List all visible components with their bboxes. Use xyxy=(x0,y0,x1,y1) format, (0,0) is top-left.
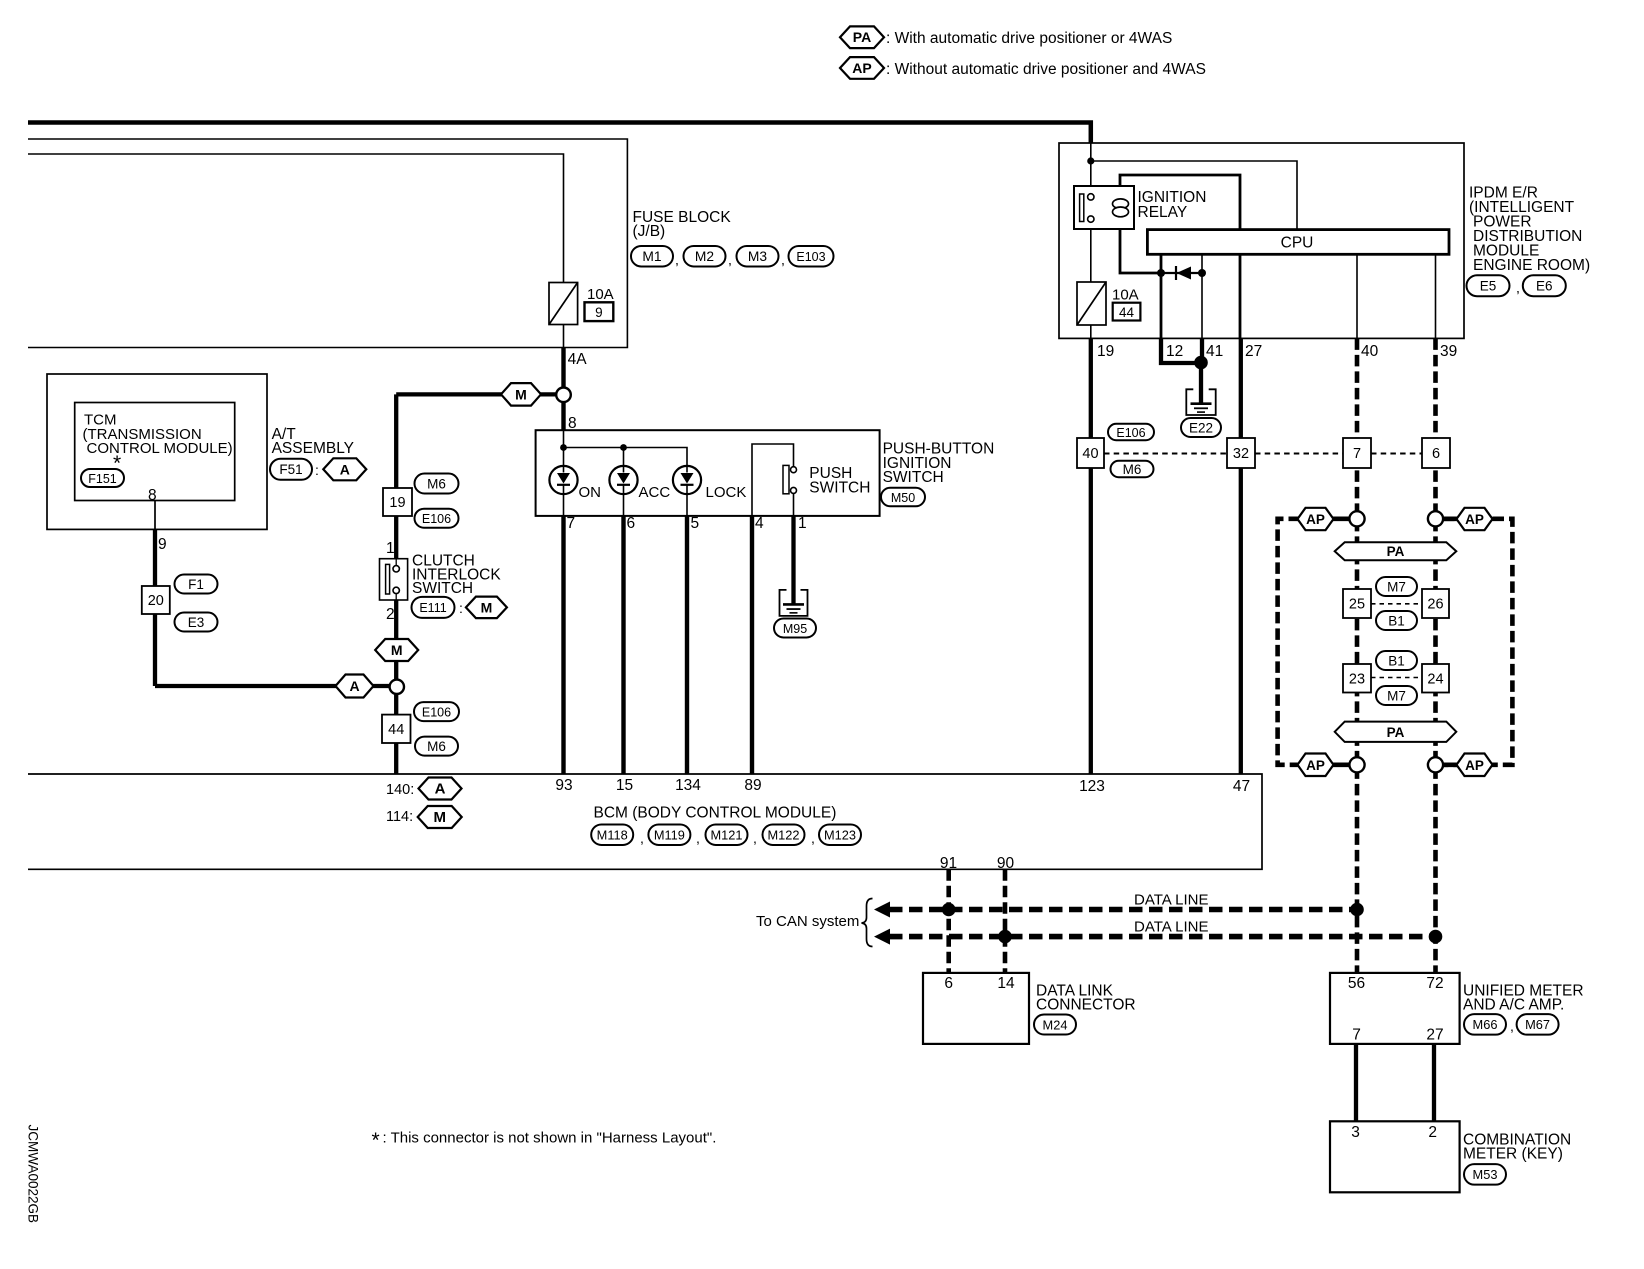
svg-text:ASSEMBLY: ASSEMBLY xyxy=(272,440,354,457)
svg-text:6: 6 xyxy=(627,515,636,532)
svg-text:SWITCH: SWITCH xyxy=(883,469,944,486)
svg-text:1: 1 xyxy=(798,515,807,532)
svg-text:,: , xyxy=(675,252,679,268)
svg-text:E106: E106 xyxy=(422,512,451,526)
svg-text:E106: E106 xyxy=(1116,426,1145,440)
svg-text:8: 8 xyxy=(148,487,157,504)
svg-text:M66: M66 xyxy=(1473,1017,1498,1032)
svg-text:7: 7 xyxy=(1353,446,1361,462)
svg-text:M123: M123 xyxy=(824,828,856,843)
svg-text:44: 44 xyxy=(1119,305,1135,320)
svg-text:M: M xyxy=(515,386,527,402)
svg-text::: : xyxy=(315,462,319,478)
svg-text:: Without automatic drive posi: : Without automatic drive positioner and… xyxy=(886,61,1206,78)
svg-text:AND A/C AMP.: AND A/C AMP. xyxy=(1463,997,1564,1014)
svg-text:E111: E111 xyxy=(419,601,446,615)
svg-text:10A: 10A xyxy=(587,286,614,303)
svg-text:AP: AP xyxy=(1306,512,1325,527)
svg-text:8: 8 xyxy=(568,415,577,432)
svg-text:123: 123 xyxy=(1079,778,1105,795)
svg-text:24: 24 xyxy=(1427,671,1443,687)
svg-text:ACC: ACC xyxy=(639,484,671,501)
svg-text:M118: M118 xyxy=(597,828,628,843)
svg-text:47: 47 xyxy=(1233,778,1250,795)
svg-text:CPU: CPU xyxy=(1281,235,1314,252)
svg-text:M2: M2 xyxy=(695,249,714,264)
svg-text:M67: M67 xyxy=(1525,1017,1550,1032)
svg-text:JCMWA0022GB: JCMWA0022GB xyxy=(26,1125,41,1224)
svg-text:3: 3 xyxy=(1351,1124,1360,1141)
svg-text:25: 25 xyxy=(1349,597,1365,613)
svg-text:6: 6 xyxy=(944,975,953,992)
svg-text:,: , xyxy=(640,830,644,846)
svg-text:*: * xyxy=(372,1129,380,1152)
svg-text:20: 20 xyxy=(148,593,164,609)
svg-text:M3: M3 xyxy=(748,249,767,264)
svg-text:PA: PA xyxy=(853,29,871,45)
svg-text:M: M xyxy=(481,599,493,615)
svg-text:A: A xyxy=(349,678,359,694)
svg-text:E6: E6 xyxy=(1536,279,1553,294)
svg-text:5: 5 xyxy=(691,515,700,532)
svg-text:SWITCH: SWITCH xyxy=(412,580,473,597)
svg-text:M6: M6 xyxy=(427,476,446,491)
svg-text:M24: M24 xyxy=(1043,1017,1068,1032)
svg-text:To CAN system: To CAN system xyxy=(756,913,859,930)
svg-text:F151: F151 xyxy=(88,472,117,486)
svg-text:10A: 10A xyxy=(1112,287,1139,304)
svg-text:E22: E22 xyxy=(1189,420,1213,435)
svg-text:134: 134 xyxy=(675,777,701,794)
svg-text:M53: M53 xyxy=(1473,1167,1498,1182)
svg-text:A: A xyxy=(435,781,446,798)
svg-text:27: 27 xyxy=(1426,1027,1443,1044)
svg-text:7: 7 xyxy=(567,515,576,532)
svg-text:AP: AP xyxy=(1306,758,1325,773)
svg-text::: : xyxy=(459,600,463,616)
svg-text:M: M xyxy=(433,809,446,826)
svg-text:91: 91 xyxy=(940,855,957,872)
svg-text:E103: E103 xyxy=(796,250,825,264)
svg-text:F51: F51 xyxy=(279,462,302,477)
svg-text:M95: M95 xyxy=(783,622,807,636)
svg-text:1: 1 xyxy=(386,540,395,557)
svg-text:CONNECTOR: CONNECTOR xyxy=(1036,997,1136,1014)
svg-text:9: 9 xyxy=(595,305,603,320)
svg-text:E106: E106 xyxy=(422,705,451,719)
svg-text:7: 7 xyxy=(1352,1027,1361,1044)
svg-text:RELAY: RELAY xyxy=(1138,204,1188,221)
svg-text:56: 56 xyxy=(1348,975,1365,992)
svg-text:F1: F1 xyxy=(188,577,204,592)
svg-text:2: 2 xyxy=(1428,1124,1437,1141)
svg-text:,: , xyxy=(1516,280,1520,296)
svg-text:AP: AP xyxy=(1465,512,1484,527)
svg-text:26: 26 xyxy=(1427,597,1443,613)
svg-text:32: 32 xyxy=(1233,446,1249,462)
svg-text:M1: M1 xyxy=(642,249,661,264)
svg-text:,: , xyxy=(753,830,757,846)
svg-text:2: 2 xyxy=(386,606,395,623)
svg-text:39: 39 xyxy=(1440,343,1457,360)
svg-text:41: 41 xyxy=(1206,343,1223,360)
svg-text:93: 93 xyxy=(555,777,572,794)
svg-text:,: , xyxy=(728,252,732,268)
svg-text:E3: E3 xyxy=(188,615,205,630)
svg-text:,: , xyxy=(781,252,785,268)
svg-text:15: 15 xyxy=(616,777,633,794)
svg-text:,: , xyxy=(1510,1018,1514,1034)
svg-text:M122: M122 xyxy=(767,828,799,843)
svg-text:114:: 114: xyxy=(386,809,413,825)
svg-text:44: 44 xyxy=(388,722,404,738)
svg-text:: With automatic drive positio: : With automatic drive positioner or 4WA… xyxy=(886,30,1172,47)
svg-text:M7: M7 xyxy=(1387,688,1406,703)
svg-text:PA: PA xyxy=(1387,544,1405,559)
svg-text:: This connector is not shown: : This connector is not shown in "Harnes… xyxy=(383,1130,717,1147)
svg-text:M6: M6 xyxy=(427,739,446,754)
svg-text:BCM (BODY CONTROL MODULE): BCM (BODY CONTROL MODULE) xyxy=(594,805,837,822)
svg-text:12: 12 xyxy=(1166,343,1183,360)
svg-text:,: , xyxy=(811,830,815,846)
svg-text:9: 9 xyxy=(158,536,167,553)
svg-text:M121: M121 xyxy=(710,828,742,843)
svg-text:(J/B): (J/B) xyxy=(633,223,666,240)
svg-text:23: 23 xyxy=(1349,671,1365,687)
svg-text:B1: B1 xyxy=(1388,653,1405,668)
svg-text:19: 19 xyxy=(389,495,405,511)
svg-text:M50: M50 xyxy=(891,491,915,505)
svg-text:140:: 140: xyxy=(386,782,414,798)
svg-text:19: 19 xyxy=(1097,343,1114,360)
svg-text:DATA LINE: DATA LINE xyxy=(1134,919,1208,936)
svg-text:72: 72 xyxy=(1426,975,1443,992)
svg-text:AP: AP xyxy=(852,60,871,76)
svg-text:ENGINE ROOM): ENGINE ROOM) xyxy=(1473,257,1590,274)
svg-text:CONTROL MODULE): CONTROL MODULE) xyxy=(87,440,233,457)
svg-text:PA: PA xyxy=(1387,725,1405,740)
svg-text:40: 40 xyxy=(1361,343,1379,360)
svg-text:LOCK: LOCK xyxy=(706,484,747,501)
svg-text:M6: M6 xyxy=(1123,462,1142,477)
svg-text:27: 27 xyxy=(1245,343,1262,360)
svg-text:M7: M7 xyxy=(1387,579,1406,594)
svg-text:M119: M119 xyxy=(654,828,685,843)
svg-text:METER (KEY): METER (KEY) xyxy=(1463,1146,1563,1163)
svg-text:M: M xyxy=(391,642,403,658)
svg-text:4A: 4A xyxy=(568,351,588,368)
svg-text:6: 6 xyxy=(1432,446,1440,462)
svg-text:14: 14 xyxy=(997,975,1015,992)
svg-text:89: 89 xyxy=(744,777,761,794)
svg-text:DATA LINE: DATA LINE xyxy=(1134,892,1208,909)
svg-text:SWITCH: SWITCH xyxy=(809,480,870,497)
svg-text:AP: AP xyxy=(1465,758,1484,773)
svg-text:40: 40 xyxy=(1082,446,1098,462)
svg-text:E5: E5 xyxy=(1480,279,1497,294)
svg-text:4: 4 xyxy=(755,515,764,532)
svg-text:90: 90 xyxy=(997,855,1015,872)
svg-text:ON: ON xyxy=(579,484,602,501)
svg-text:A: A xyxy=(340,461,350,477)
svg-text:B1: B1 xyxy=(1388,613,1405,628)
svg-text:,: , xyxy=(696,830,700,846)
